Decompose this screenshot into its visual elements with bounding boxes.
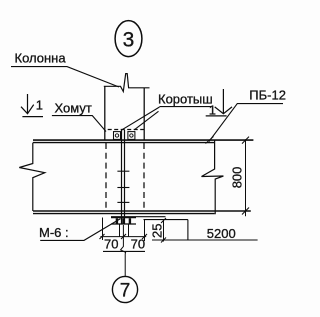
dim 800 dimension line xyxy=(245,139,247,216)
section mark 1 right xyxy=(206,89,232,118)
dim 5200 riser xyxy=(187,220,189,240)
callout М-6 xyxy=(39,219,121,241)
dim 25 tick top xyxy=(161,218,166,223)
bolt centre line to bubble 7 xyxy=(121,225,126,276)
dim 800 tick bottom xyxy=(242,208,249,215)
base plate top xyxy=(111,216,136,218)
callout Коротыш xyxy=(121,91,213,130)
svg-text:Хомут: Хомут xyxy=(55,101,92,116)
rod tick 3 xyxy=(117,201,129,203)
dim tick xyxy=(100,234,105,239)
dim 70+70 right extension xyxy=(144,220,146,241)
beam right break xyxy=(202,140,224,215)
dim 70+70 left extension xyxy=(102,218,104,241)
detail bubble 7 xyxy=(112,276,137,302)
base plate bottom xyxy=(111,223,136,225)
nut bar left xyxy=(116,218,118,224)
svg-text:70: 70 xyxy=(131,237,145,252)
svg-text:25: 25 xyxy=(150,224,165,238)
svg-text:70: 70 xyxy=(104,237,118,252)
dim tick xyxy=(121,234,126,239)
dim 25 top extension xyxy=(136,216,166,218)
rod tick 2 xyxy=(117,187,129,189)
dim 70+70 inner extension left xyxy=(119,224,121,237)
section mark 1 left xyxy=(21,94,43,117)
svg-text:Колонна: Колонна xyxy=(15,50,67,65)
svg-text:1: 1 xyxy=(36,98,43,113)
svg-text:М-6 :: М-6 : xyxy=(39,225,69,240)
beam left break xyxy=(19,143,45,211)
svg-text:5200: 5200 xyxy=(207,226,236,241)
svg-text:ПБ-12: ПБ-12 xyxy=(249,88,286,103)
dim 25 dimension line xyxy=(163,219,165,242)
callout ПБ-12 xyxy=(206,88,286,144)
beam top flange lower line xyxy=(33,142,215,144)
clamp nut left xyxy=(114,132,121,140)
callout Хомут xyxy=(52,101,106,132)
column right edge xyxy=(143,88,145,140)
tie rod right line xyxy=(124,130,126,224)
dim 5200 dimension line xyxy=(152,239,258,241)
dim 25 / 5200 step extension xyxy=(144,219,188,221)
svg-text:3: 3 xyxy=(123,29,135,52)
svg-text:Коротыш: Коротыш xyxy=(158,91,213,106)
dim 25 tick bottom xyxy=(161,238,166,243)
tie rod left line xyxy=(121,130,123,224)
detail bubble 3 xyxy=(115,21,142,57)
column hidden right edge (dashed) xyxy=(143,143,145,211)
svg-text:7: 7 xyxy=(120,280,131,301)
beam top flange upper line xyxy=(33,139,253,141)
column top break line xyxy=(104,74,150,92)
clamp nut right xyxy=(128,132,135,140)
svg-text:800: 800 xyxy=(230,167,245,189)
callout Колонна xyxy=(11,50,119,87)
clamp hidden bar (dashed) xyxy=(108,129,145,131)
beam bottom flange upper line xyxy=(33,210,251,212)
rod tick 1 xyxy=(117,170,129,172)
nut bar centre xyxy=(122,218,124,224)
dim 70+70 dimension line xyxy=(100,236,146,238)
shelf line under 70 70 xyxy=(103,250,145,252)
beam bottom flange lower line xyxy=(33,213,215,215)
dim tick xyxy=(142,234,147,239)
dim 70+70 inner extension right xyxy=(128,224,130,237)
dim 800 tick top xyxy=(242,137,249,144)
column left edge xyxy=(104,86,106,140)
column hidden left edge (dashed) xyxy=(105,143,107,211)
nut bar right xyxy=(129,218,131,224)
